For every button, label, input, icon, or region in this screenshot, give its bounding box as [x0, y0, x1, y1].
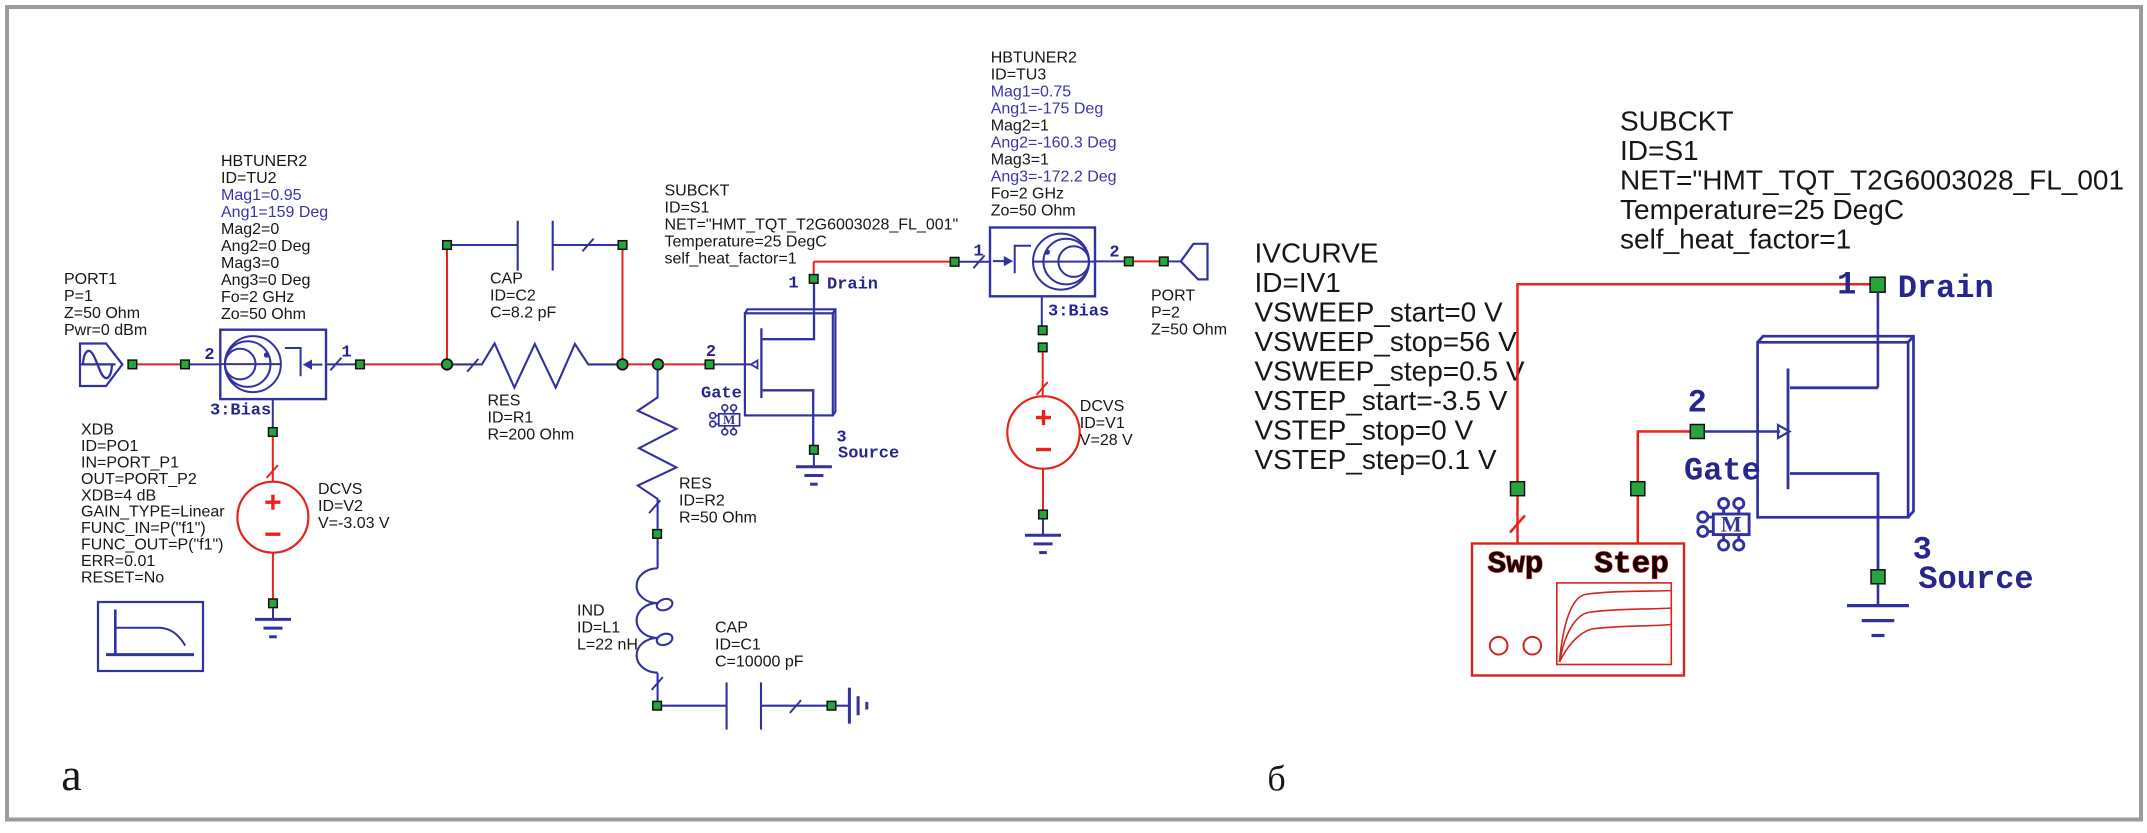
CAP C1 parameter text [715, 620, 804, 671]
svg-text:NET="HMT_TQT_T2G6003028_FL_001: NET="HMT_TQT_T2G6003028_FL_001" [665, 217, 959, 234]
svg-text:R=200 Ohm: R=200 Ohm [488, 427, 575, 444]
junction R1 right / C2 right [617, 359, 628, 370]
node TU3 bias [1038, 326, 1047, 335]
svg-text:Drain: Drain [1898, 270, 1994, 307]
node V1 ground [1039, 510, 1048, 519]
svg-text:ID=IV1: ID=IV1 [1255, 267, 1341, 298]
svg-text:ERR=0.01: ERR=0.01 [81, 553, 155, 570]
P2 lead [1169, 260, 1181, 262]
ground at Source (b) [1847, 606, 1909, 636]
svg-text:GAIN_TYPE=Linear: GAIN_TYPE=Linear [81, 504, 225, 521]
ground at FET source [796, 467, 832, 484]
ground at V1 [1025, 535, 1061, 552]
svg-text:ID=V1: ID=V1 [1080, 415, 1125, 432]
node V2 ground [269, 599, 278, 608]
V2 wire slash [267, 465, 278, 478]
svg-text:PORT1: PORT1 [64, 271, 117, 288]
resistor R2 [638, 370, 677, 529]
svg-text:Ang2=0 Deg: Ang2=0 Deg [221, 238, 310, 255]
svg-text:C=10000 pF: C=10000 pF [715, 654, 804, 671]
svg-text:ID=PO1: ID=PO1 [81, 438, 138, 455]
C1 lead slash [790, 700, 801, 713]
svg-text:Temperature=25 DegC: Temperature=25 DegC [1620, 194, 1904, 225]
svg-text:Zo=50 Ohm: Zo=50 Ohm [221, 306, 306, 323]
svg-text:SUBCKT: SUBCKT [1620, 105, 1734, 136]
gate lead (b) [1705, 430, 1781, 433]
gate arrow (b) [1778, 425, 1790, 438]
node R2-L1 [653, 530, 662, 539]
capacitor C2 [452, 221, 618, 271]
DCVS V2 source [237, 482, 308, 553]
DCVS V2 parameter text [318, 481, 390, 532]
svg-text:R=50 Ohm: R=50 Ohm [679, 510, 757, 527]
IVCURVE IV1 parameter text [1255, 237, 1525, 475]
node C2 left [443, 241, 452, 250]
tuner TU2 smith chart [220, 336, 281, 392]
svg-text:Mag1=0.95: Mag1=0.95 [221, 187, 302, 204]
node C2 right [618, 241, 627, 250]
svg-text:б: б [1267, 759, 1285, 799]
svg-text:V=-3.03 V: V=-3.03 V [318, 515, 390, 532]
svg-text:RESET=No: RESET=No [81, 569, 164, 586]
svg-text:Ang3=-172.2 Deg: Ang3=-172.2 Deg [991, 169, 1117, 186]
svg-text:3:Bias: 3:Bias [210, 402, 271, 421]
svg-text:Mag1=0.75: Mag1=0.75 [991, 84, 1072, 101]
node at P1 pin [128, 360, 137, 369]
C2 lead slash [582, 239, 593, 252]
svg-text:IN=PORT_P1: IN=PORT_P1 [81, 455, 179, 472]
svg-text:Ang3=0 Deg: Ang3=0 Deg [221, 272, 310, 289]
node C1-ground [827, 701, 836, 710]
drain lead (b) [1877, 292, 1880, 388]
tuner TU2 box [220, 330, 326, 399]
HBTUNER2 TU2 parameter text [221, 153, 328, 323]
rotated ground after C1 [836, 688, 867, 724]
wire TU2 to R1 node [365, 363, 442, 365]
junction R1 left [442, 359, 453, 370]
svg-text:ID=R2: ID=R2 [679, 493, 725, 510]
inductor L1 [637, 539, 674, 701]
svg-text:Mag2=1: Mag2=1 [991, 118, 1049, 135]
svg-text:Gate: Gate [1684, 453, 1761, 490]
svg-text:Ang1=159 Deg: Ang1=159 Deg [221, 204, 328, 221]
wire junction to junction [628, 363, 653, 365]
TU2 pin1 lead [326, 363, 355, 365]
svg-text:VSWEEP_step=0.5 V: VSWEEP_step=0.5 V [1255, 355, 1525, 386]
node Step wire [1631, 482, 1645, 496]
node P2 pin [1160, 257, 1169, 266]
svg-text:NET="HMT_TQT_T2G6003028_FL_001: NET="HMT_TQT_T2G6003028_FL_001 [1620, 164, 2124, 195]
junction R2 top [653, 359, 664, 370]
IND L1 parameter text [577, 603, 638, 654]
svg-text:V=28 V: V=28 V [1080, 432, 1133, 449]
source ground stub [813, 455, 815, 467]
node Swp wire [1511, 482, 1525, 496]
wire Swp to Drain [1518, 284, 1871, 543]
transistor S1 subckt box (b) [1758, 336, 1914, 517]
svg-text:Swp: Swp [1488, 547, 1544, 582]
TU2 bias stub [272, 399, 274, 427]
IVCURVE instrument box [1472, 544, 1684, 676]
svg-text:Ang2=-160.3 Deg: Ang2=-160.3 Deg [991, 135, 1117, 152]
wire V1 top [1042, 352, 1044, 396]
PORT1 parameter text [64, 271, 147, 339]
svg-text:1: 1 [1837, 267, 1856, 304]
svg-text:Mag2=0: Mag2=0 [221, 221, 279, 238]
tuner TU3 box [990, 228, 1095, 297]
TU2 pin2 lead [190, 363, 221, 365]
drain wire to TU3 [814, 261, 950, 263]
node L1-C1 [653, 701, 662, 710]
wire V1 bottom [1042, 469, 1044, 510]
wire TU3 to P2 [1134, 260, 1159, 262]
TU3 pin1 slash [973, 255, 984, 268]
tuner TU3 smith chart [1033, 234, 1095, 290]
CAP C2 parameter text [490, 271, 556, 322]
svg-text:2: 2 [204, 346, 214, 365]
svg-text:RES: RES [488, 393, 521, 410]
transistor S1 subckt box [745, 309, 836, 415]
svg-text:Mag3=1: Mag3=1 [991, 152, 1049, 169]
pin1 lead slash [330, 358, 341, 371]
svg-text:ID=S1: ID=S1 [665, 200, 710, 217]
port P1 symbol [80, 344, 122, 387]
XDB gain-compression icon [98, 602, 203, 671]
drain wire up [813, 262, 815, 274]
svg-text:Source: Source [1918, 561, 2033, 598]
resistor R1 [453, 343, 618, 387]
svg-text:OUT=PORT_P2: OUT=PORT_P2 [81, 471, 197, 488]
svg-text:1: 1 [973, 243, 983, 262]
V2 ground stub [272, 608, 274, 619]
V1 wire slash [1037, 382, 1048, 395]
TU3 pin2 lead [1095, 260, 1124, 262]
model badge M (schematic b) [1698, 499, 1749, 551]
svg-text:ID=V2: ID=V2 [318, 498, 363, 515]
Swp wire slash [1510, 516, 1525, 533]
R1 lead slash [467, 359, 478, 372]
model badge M (schematic a) [710, 405, 740, 435]
svg-text:CAP: CAP [715, 620, 748, 637]
DCVS V1 source [1007, 396, 1079, 468]
svg-text:IVCURVE: IVCURVE [1255, 237, 1379, 268]
svg-text:Pwr=0 dBm: Pwr=0 dBm [64, 322, 147, 339]
IV curves graph [1557, 583, 1672, 665]
wire C2 right leg [622, 250, 624, 360]
svg-text:Z=50 Ohm: Z=50 Ohm [1151, 322, 1227, 339]
node FET gate [705, 360, 714, 369]
svg-text:P=1: P=1 [64, 288, 93, 305]
svg-text:Fo=2 GHz: Fo=2 GHz [991, 186, 1064, 203]
svg-text:ID=R1: ID=R1 [488, 410, 534, 427]
SUBCKT S1 parameter text (b) [1620, 105, 2124, 254]
svg-text:Source: Source [838, 445, 899, 464]
node FET source [810, 446, 819, 455]
wire P1 to TU2 [137, 363, 180, 365]
gate lead [714, 363, 751, 365]
transistor S1 FET symbol [751, 274, 814, 445]
transistor S1 FET symbol (b) [1788, 369, 1878, 573]
capacitor C1 [662, 682, 827, 729]
svg-text:1: 1 [341, 344, 351, 363]
V1 ground stub [1042, 519, 1044, 535]
svg-text:2: 2 [706, 343, 716, 362]
HBTUNER2 TU3 parameter text [991, 50, 1117, 220]
svg-text:DCVS: DCVS [1080, 398, 1124, 415]
svg-text:IND: IND [577, 603, 605, 620]
svg-text:FUNC_IN=P("f1"): FUNC_IN=P("f1") [81, 520, 206, 537]
wire Step to Gate [1638, 432, 1690, 544]
DCVS V1 parameter text [1080, 398, 1133, 449]
svg-text:2: 2 [1109, 244, 1119, 263]
svg-text:DCVS: DCVS [318, 481, 362, 498]
svg-text:PORT: PORT [1151, 288, 1195, 305]
tuner TU2 bend+arrow [285, 348, 323, 376]
svg-text:M: M [723, 412, 735, 427]
node V1 top [1038, 343, 1047, 352]
TU3 pin1 lead [959, 261, 990, 263]
node FET drain [809, 275, 818, 284]
svg-text:Step: Step [1594, 547, 1668, 582]
node TU2 bias [269, 428, 278, 437]
ground at V2 [255, 619, 291, 636]
wire V2 top [272, 437, 274, 482]
svg-text:self_heat_factor=1: self_heat_factor=1 [665, 251, 797, 268]
svg-text:P=2: P=2 [1151, 305, 1180, 322]
node at TU2 pin2 [181, 360, 190, 369]
svg-text:VSWEEP_stop=56 V: VSWEEP_stop=56 V [1255, 326, 1518, 357]
svg-text:Ang1=-175 Deg: Ang1=-175 Deg [991, 101, 1104, 118]
svg-text:ID=L1: ID=L1 [577, 620, 620, 637]
svg-text:Z=50 Ohm: Z=50 Ohm [64, 305, 140, 322]
svg-text:self_heat_factor=1: self_heat_factor=1 [1620, 223, 1851, 254]
tuner TU3 bend+arrow [993, 246, 1031, 273]
PORT P2 parameter text [1151, 288, 1227, 339]
RES R1 parameter text [488, 393, 575, 444]
svg-text:L=22 nH: L=22 nH [577, 637, 638, 654]
node Gate (b) [1690, 425, 1704, 439]
svg-text:2: 2 [1688, 385, 1707, 422]
instrument indicator circles [1490, 637, 1541, 655]
svg-text:3:Bias: 3:Bias [1048, 303, 1109, 322]
svg-text:Temperature=25 DegC: Temperature=25 DegC [665, 234, 827, 251]
svg-text:ID=TU2: ID=TU2 [221, 170, 277, 187]
svg-text:C=8.2 pF: C=8.2 pF [490, 305, 556, 322]
wire C2 left leg [446, 250, 448, 360]
svg-text:ID=C2: ID=C2 [490, 288, 536, 305]
svg-text:ID=C1: ID=C1 [715, 637, 761, 654]
svg-text:Zo=50 Ohm: Zo=50 Ohm [991, 203, 1076, 220]
svg-text:Gate: Gate [701, 385, 742, 404]
SUBCKT S1 parameter text [665, 183, 959, 268]
node Source (b) [1871, 570, 1885, 584]
XDB measurement parameter text [81, 422, 225, 587]
svg-text:VSTEP_stop=0 V: VSTEP_stop=0 V [1255, 414, 1474, 445]
node TU2 pin1 [356, 360, 365, 369]
svg-text:Drain: Drain [827, 276, 878, 295]
svg-text:Fo=2 GHz: Fo=2 GHz [221, 289, 294, 306]
L1 lead slash [652, 677, 663, 690]
svg-text:VSTEP_step=0.1 V: VSTEP_step=0.1 V [1255, 444, 1497, 475]
TU3 bias stub [1041, 296, 1043, 325]
svg-text:ID=TU3: ID=TU3 [991, 67, 1047, 84]
svg-text:FUNC_OUT=P("f1"): FUNC_OUT=P("f1") [81, 537, 223, 554]
svg-text:CAP: CAP [490, 271, 523, 288]
svg-text:а: а [61, 749, 81, 800]
wire to FET gate node [663, 363, 705, 365]
svg-text:1: 1 [788, 275, 798, 294]
svg-text:HBTUNER2: HBTUNER2 [221, 153, 307, 170]
svg-text:M: M [1721, 512, 1742, 537]
port P2 symbol [1181, 244, 1208, 280]
svg-text:Mag3=0: Mag3=0 [221, 255, 279, 272]
node TU3 pin2 [1125, 257, 1134, 266]
node TU3 pin1 [950, 258, 959, 267]
svg-text:RES: RES [679, 476, 712, 493]
source ground stub (b) [1877, 584, 1880, 606]
svg-text:ID=S1: ID=S1 [1620, 135, 1699, 166]
svg-text:VSWEEP_start=0 V: VSWEEP_start=0 V [1255, 296, 1504, 327]
svg-text:XDB: XDB [81, 422, 114, 439]
svg-text:HBTUNER2: HBTUNER2 [991, 50, 1077, 67]
node Drain (b) [1870, 277, 1885, 292]
R2 lead slash [649, 500, 660, 513]
svg-text:VSTEP_start=-3.5 V: VSTEP_start=-3.5 V [1255, 385, 1508, 416]
RES R2 parameter text [679, 476, 757, 527]
svg-text:XDB=4 dB: XDB=4 dB [81, 487, 156, 504]
svg-text:SUBCKT: SUBCKT [665, 183, 730, 200]
wire V2 bottom [272, 553, 274, 599]
